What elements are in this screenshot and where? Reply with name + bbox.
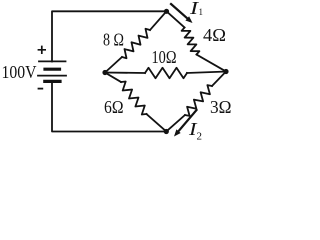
resistor 6ohm zigzag <box>121 82 147 115</box>
junction dot top node <box>164 9 169 14</box>
junction dot east node <box>223 69 228 74</box>
svg-text:10Ω: 10Ω <box>152 47 177 67</box>
svg-text:3Ω: 3Ω <box>210 97 232 117</box>
wire bottom: battery - down and right to bottom node <box>52 83 166 132</box>
arrowhead I2 <box>174 129 181 136</box>
battery V1 short thick plate 2 <box>45 68 60 71</box>
wire 10ohm to east node <box>187 72 226 74</box>
svg-text:4Ω: 4Ω <box>203 25 226 45</box>
svg-text:6Ω: 6Ω <box>104 97 124 117</box>
resistor 8ohm zigzag <box>122 29 150 58</box>
battery V1 short thick plate 4 <box>45 80 60 83</box>
current arrow I1 shaft <box>171 4 189 20</box>
wire top node to 4ohm <box>167 11 185 27</box>
wire 4ohm to east node <box>197 55 227 72</box>
arrowhead I1 <box>185 16 192 23</box>
resistor 4ohm zigzag <box>182 28 200 55</box>
battery V1 long plate 1 <box>39 60 66 62</box>
resistor 10ohm zigzag <box>145 68 187 78</box>
wire east node to 3ohm <box>212 72 226 87</box>
svg-text:100V: 100V <box>2 62 37 82</box>
battery plus sign <box>38 46 46 54</box>
current arrow I2 shaft <box>177 110 197 133</box>
wire west node to 6ohm <box>105 73 121 83</box>
wire 8ohm to west node <box>105 57 122 73</box>
resistor 3ohm zigzag <box>185 85 212 116</box>
wire 3ohm to bottom node <box>166 115 185 132</box>
wire top: battery + up and right to top node <box>52 11 167 61</box>
battery minus sign <box>38 88 44 90</box>
wire 6ohm to bottom node <box>147 114 167 132</box>
wire west node to 10ohm <box>105 72 145 75</box>
wire top node to 8ohm <box>150 11 167 30</box>
battery V1 long plate 3 <box>38 75 66 77</box>
junction dot west node <box>102 70 107 75</box>
svg-text:2: 2 <box>197 131 203 143</box>
svg-text:1: 1 <box>199 7 204 17</box>
junction dot bottom node <box>164 129 169 134</box>
svg-text:8 Ω: 8 Ω <box>103 30 124 50</box>
